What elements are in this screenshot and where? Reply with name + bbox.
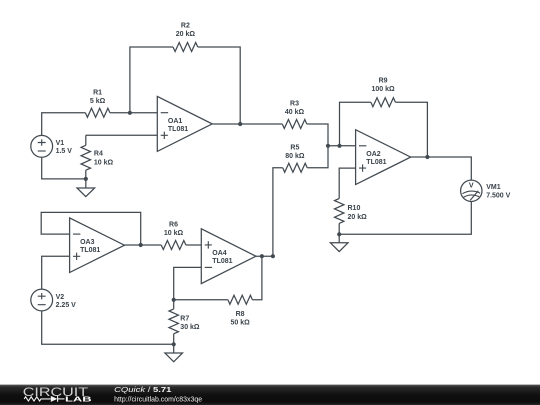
svg-text:V: V: [469, 181, 474, 189]
svg-text:10 kΩ: 10 kΩ: [164, 230, 184, 237]
svg-text:100 kΩ: 100 kΩ: [372, 86, 396, 93]
svg-text:10 kΩ: 10 kΩ: [94, 159, 114, 166]
svg-text:TL081: TL081: [212, 258, 232, 265]
svg-text:5 kΩ: 5 kΩ: [90, 98, 106, 105]
svg-text:1.5 V: 1.5 V: [56, 148, 73, 155]
svg-text:R2: R2: [181, 23, 190, 30]
svg-text:R6: R6: [169, 222, 178, 229]
svg-text:OA2: OA2: [366, 151, 381, 158]
svg-text:LAB: LAB: [65, 395, 92, 404]
svg-text:R3: R3: [290, 100, 299, 107]
svg-text:TL081: TL081: [80, 247, 100, 254]
svg-text:R7: R7: [180, 315, 189, 322]
svg-text:V1: V1: [56, 140, 65, 147]
svg-text:TL081: TL081: [168, 126, 188, 133]
svg-text:2.25 V: 2.25 V: [56, 302, 77, 309]
svg-text:30 kΩ: 30 kΩ: [180, 324, 200, 331]
svg-text:7.500 V: 7.500 V: [486, 193, 510, 200]
svg-text:20 kΩ: 20 kΩ: [348, 214, 368, 221]
svg-text:OA1: OA1: [168, 118, 183, 125]
svg-text:http://circuitlab.com/c83x3qe: http://circuitlab.com/c83x3qe: [114, 394, 202, 403]
svg-text:R10: R10: [348, 205, 361, 212]
svg-text:CQuick / 5.71: CQuick / 5.71: [114, 385, 172, 394]
svg-text:R1: R1: [93, 90, 102, 97]
svg-text:50 kΩ: 50 kΩ: [230, 320, 250, 327]
svg-text:VM1: VM1: [486, 184, 501, 191]
svg-text:OA4: OA4: [212, 250, 227, 257]
svg-text:OA3: OA3: [80, 239, 95, 246]
svg-text:R8: R8: [236, 311, 245, 318]
svg-text:R9: R9: [379, 78, 388, 85]
svg-text:20 kΩ: 20 kΩ: [176, 31, 196, 38]
svg-text:R4: R4: [94, 151, 103, 158]
svg-text:40 kΩ: 40 kΩ: [285, 109, 305, 116]
svg-text:V2: V2: [56, 294, 65, 301]
svg-text:TL081: TL081: [366, 159, 386, 166]
svg-text:80 kΩ: 80 kΩ: [285, 153, 305, 160]
svg-text:R5: R5: [290, 144, 299, 151]
